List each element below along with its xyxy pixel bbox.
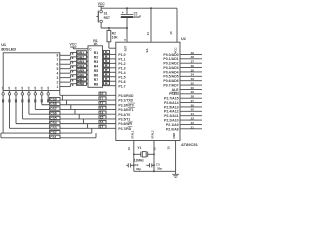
- pin 33 stub wire: [180, 77, 202, 81]
- pin names P0.0/AD0-P0.7/AD7 ALE PSEN P2.7/A15-P2.0/A8: [163, 53, 179, 131]
- svg-text:CS2: CS2: [50, 131, 57, 135]
- wire XTAL1 pin 19 down: [127, 141, 134, 172]
- svg-text:P3.1/TXD: P3.1/TXD: [118, 99, 133, 103]
- svg-text:R7: R7: [94, 78, 98, 82]
- wire R network to P1.4 pin 5: [103, 68, 116, 72]
- svg-text:P3.5/T1: P3.5/T1: [118, 118, 130, 122]
- svg-text:P1.0: P1.0: [118, 53, 125, 57]
- display bottom pin 4 with connection circle: [21, 91, 24, 119]
- junction ground rail: [153, 170, 155, 172]
- wire to resistor network: [87, 51, 89, 53]
- svg-text:P3.7/RD: P3.7/RD: [118, 127, 131, 131]
- pin 17 number box on P3.7 wire: [99, 125, 106, 129]
- pin 13 number box on P3.3 wire: [99, 106, 106, 110]
- svg-text:19: 19: [127, 147, 131, 150]
- wire CS net row to P3.3: [35, 108, 116, 110]
- pin 36 stub wire: [180, 64, 202, 68]
- net label DB6: [77, 73, 87, 77]
- pin 28 stub wire: [180, 95, 202, 99]
- wire CS net row 9: [1, 133, 96, 138]
- svg-text:ab: ab: [46, 86, 50, 89]
- svg-text:P3.4/T0: P3.4/T0: [118, 113, 130, 117]
- pin 10 number box on P3.0 wire: [99, 92, 106, 96]
- wire R network to P1.2 pin 3: [103, 59, 116, 63]
- net label CS8: [50, 102, 61, 106]
- svg-text:DB1: DB1: [77, 51, 84, 55]
- net label DB7: [77, 78, 87, 82]
- display bottom pin 7 with connection circle: [41, 91, 44, 105]
- pin 25 stub wire: [180, 108, 202, 112]
- wire display pin 2 to segment net: [60, 79, 77, 82]
- wire display pin 3 to segment net: [60, 75, 77, 78]
- svg-text:3: 3: [57, 76, 59, 80]
- svg-text:7: 7: [57, 58, 59, 62]
- wire R network to P1.6 pin 7: [103, 77, 116, 81]
- svg-text:2: 2: [57, 80, 59, 84]
- net label CS9: [50, 97, 61, 101]
- svg-text:U2: U2: [181, 37, 186, 41]
- resistor network R1 element labels R1-R8: [94, 51, 98, 86]
- staircase wire jog 6: [87, 124, 89, 129]
- staircase wire jog 3: [74, 109, 76, 114]
- wire R2 to RST pin area: [109, 42, 116, 48]
- svg-text:P1.1: P1.1: [118, 57, 125, 61]
- svg-text:R6: R6: [94, 73, 98, 77]
- staircase wire jog 0: [61, 95, 63, 100]
- svg-text:P1.5: P1.5: [118, 75, 125, 79]
- resistor network R1 body: [88, 46, 103, 88]
- svg-text:P1.7: P1.7: [118, 84, 125, 88]
- net label DB5: [77, 69, 87, 73]
- wire to resistor network: [87, 74, 89, 76]
- svg-text:10K: 10K: [112, 36, 119, 40]
- display bottom pin 6 with connection circle: [34, 91, 37, 110]
- svg-text:P3.3/INT1: P3.3/INT1: [118, 108, 133, 112]
- svg-text:ab: ab: [33, 86, 37, 89]
- pin 11 number box on P3.1 wire: [99, 97, 106, 101]
- staircase wire jog 7: [91, 128, 93, 133]
- wire display pin 1 to segment net: [60, 84, 77, 87]
- svg-text:P1.6: P1.6: [118, 80, 125, 84]
- svg-text:12MHz: 12MHz: [134, 159, 145, 163]
- display bottom pin 2 with connection circle: [8, 91, 11, 129]
- svg-text:30p: 30p: [157, 166, 162, 170]
- pin 34 stub wire: [180, 73, 202, 77]
- wire R network to P1.5 pin 6: [103, 73, 116, 77]
- wire ground rail: [134, 170, 176, 172]
- svg-text:DB8: DB8: [77, 82, 84, 86]
- net label CS4: [50, 121, 61, 125]
- junction C2 tap: [133, 164, 135, 166]
- svg-text:EA: EA: [145, 49, 149, 53]
- pin names P1.0-P1.7: [118, 53, 125, 88]
- junction crystal left: [133, 153, 135, 155]
- wire to resistor network: [87, 60, 89, 62]
- pin 15 number box on P3.5 wire: [99, 116, 106, 120]
- pin 14 number box on P3.4 wire: [99, 111, 106, 115]
- svg-text:ab: ab: [20, 86, 24, 89]
- svg-text:P1.4: P1.4: [118, 71, 125, 75]
- wire R network to P1.0 pin 1: [103, 50, 116, 54]
- net label CS3: [50, 126, 61, 130]
- svg-text:6: 6: [57, 63, 59, 67]
- wire CS net row to P3.5: [22, 118, 115, 120]
- svg-text:ab: ab: [1, 86, 5, 89]
- pin 32 stub wire: [180, 81, 202, 85]
- svg-text:DB6: DB6: [77, 73, 84, 77]
- staircase wire jog 1: [66, 100, 68, 105]
- pin 37 stub wire: [180, 60, 202, 64]
- net label DB8: [77, 82, 87, 86]
- svg-text:CS9: CS9: [50, 98, 57, 102]
- capacitor C3 30p: [146, 162, 162, 170]
- svg-text:AT89C51: AT89C51: [181, 142, 199, 147]
- junction at EA pin: [150, 7, 152, 9]
- net label CS7: [50, 107, 61, 111]
- pin 23 stub wire: [180, 117, 202, 121]
- svg-text:8DSLED: 8DSLED: [1, 47, 16, 51]
- svg-text:Y1: Y1: [137, 146, 141, 150]
- svg-text:21: 21: [191, 125, 195, 129]
- svg-text:40: 40: [169, 31, 173, 35]
- power symbol VCC top: [98, 2, 106, 8]
- svg-text:P3.2/INT0: P3.2/INT0: [118, 103, 133, 107]
- pin 29 stub wire: [180, 90, 202, 94]
- svg-text:8: 8: [57, 54, 59, 58]
- wire to resistor network: [87, 56, 89, 58]
- pin names P3.0-P3.7: [118, 94, 135, 131]
- wire CS net row to P3.4: [29, 113, 116, 115]
- display bottom pin 5 with connection circle: [28, 91, 31, 115]
- crystal Y1 12MHz: [134, 146, 154, 162]
- svg-text:ab: ab: [7, 86, 11, 89]
- wire CS net row to P3.2: [42, 104, 116, 106]
- pin 12 number box on P3.2 wire: [99, 102, 106, 106]
- staircase wire jog 8: [95, 133, 97, 138]
- net label CS5: [50, 116, 61, 120]
- pin 21 stub wire: [180, 125, 202, 129]
- wire R network to P1.3 pin 4: [103, 64, 116, 68]
- svg-text:R5: R5: [94, 69, 98, 73]
- pin 38 stub wire: [180, 55, 202, 59]
- svg-text:31: 31: [146, 32, 150, 36]
- svg-text:CS4: CS4: [50, 121, 57, 125]
- svg-text:GND: GND: [172, 133, 176, 139]
- svg-text:+: +: [122, 11, 124, 15]
- pin 22 stub wire: [180, 121, 202, 125]
- wire display pin 5 to segment net: [60, 66, 77, 69]
- svg-text:DB5: DB5: [77, 69, 84, 73]
- svg-text:10uF: 10uF: [134, 15, 141, 19]
- pin 26 stub wire: [180, 103, 202, 107]
- svg-text:DB7: DB7: [77, 78, 84, 82]
- net label DB2: [77, 55, 87, 59]
- junction at R2 top: [108, 27, 110, 29]
- capacitor C2 30p: [126, 163, 141, 171]
- wire display corner pin to P3 row: [60, 91, 116, 96]
- junction at C1 bottom: [126, 27, 128, 29]
- staircase wire jog 4: [78, 114, 80, 119]
- svg-text:P1.3: P1.3: [118, 66, 125, 70]
- svg-text:R2: R2: [94, 56, 98, 60]
- wire to resistor network: [87, 83, 89, 85]
- wire RST node down to MCU pin 9: [123, 28, 127, 42]
- junction at C1 top: [126, 7, 128, 9]
- svg-text:CS6: CS6: [50, 112, 57, 116]
- wire display pin 6 to segment net: [60, 61, 77, 64]
- LED display U1 body: [3, 53, 60, 91]
- ground symbol: [172, 171, 179, 177]
- net label DB1: [77, 51, 87, 55]
- resistor R2 10K: [107, 28, 118, 42]
- pin 24 stub wire: [180, 112, 202, 116]
- svg-text:XTAL1: XTAL1: [130, 130, 134, 139]
- net label CS6: [50, 112, 61, 116]
- wire to resistor network: [87, 78, 89, 80]
- svg-text:1: 1: [57, 85, 59, 89]
- wire VCC pin 40: [169, 8, 177, 42]
- svg-text:XTAL2: XTAL2: [151, 130, 155, 139]
- svg-text:RST: RST: [104, 16, 110, 20]
- net label CS1: [50, 135, 61, 139]
- svg-text:18: 18: [153, 147, 157, 150]
- svg-text:20: 20: [167, 146, 171, 149]
- pin 16 number box on P3.6 wire: [99, 120, 106, 124]
- pin 30 stub wire: [180, 86, 202, 90]
- staircase wire jog 5: [82, 119, 84, 124]
- wire GND pin 20 down: [167, 141, 176, 172]
- svg-text:R3: R3: [94, 60, 98, 64]
- svg-text:ab: ab: [27, 86, 31, 89]
- power symbol VCC at resistor network: [70, 43, 89, 49]
- wire XTAL2 pin 18 down: [153, 141, 157, 172]
- microcontroller U2 AT89C51 body: [116, 42, 180, 140]
- wire reset node rail: [101, 27, 127, 29]
- pin 35 stub wire: [180, 68, 202, 72]
- svg-text:RST: RST: [124, 45, 128, 51]
- capacitor C1 10uF electrolytic: [121, 8, 141, 28]
- svg-text:DB2: DB2: [77, 55, 84, 59]
- pin 27 stub wire: [180, 99, 202, 103]
- wire display pin 7 to segment net: [60, 57, 77, 60]
- svg-text:4: 4: [57, 71, 59, 75]
- svg-text:ab: ab: [39, 86, 43, 89]
- wire CS net row 8: [3, 132, 92, 134]
- display bottom pin 1 with connection circle: [2, 91, 5, 134]
- svg-text:P1.2: P1.2: [118, 62, 125, 66]
- svg-text:CS8: CS8: [50, 102, 57, 106]
- svg-text:CS7: CS7: [50, 107, 57, 111]
- svg-text:R4: R4: [94, 65, 98, 69]
- svg-text:VCC: VCC: [70, 43, 78, 47]
- wire VCC rail top: [101, 7, 177, 9]
- svg-text:P3.0/RXD: P3.0/RXD: [118, 94, 134, 98]
- display U1 right pin numbers 8-1: [57, 54, 59, 89]
- wire to resistor network: [87, 69, 89, 71]
- wire EA pin 31 to VCC: [146, 8, 151, 42]
- svg-text:DB3: DB3: [77, 60, 84, 64]
- junction crystal right: [153, 153, 155, 155]
- svg-text:5: 5: [57, 67, 59, 71]
- svg-text:30p: 30p: [136, 167, 141, 171]
- display U1 bottom pin name marks: [1, 86, 50, 89]
- net label DB4: [77, 64, 87, 68]
- svg-text:P3.6/WR: P3.6/WR: [118, 122, 132, 126]
- svg-text:ab: ab: [14, 86, 18, 89]
- display bottom pin 8 with connection circle: [47, 91, 50, 103]
- svg-text:CS1: CS1: [50, 135, 57, 139]
- pin 39 stub wire: [180, 51, 202, 55]
- wire CS net row to P3.6: [16, 123, 116, 125]
- net label CS2: [50, 130, 61, 134]
- switch S1 RST pushbutton: [96, 8, 110, 28]
- wire R network to P1.1 pin 2: [103, 55, 116, 59]
- svg-text:VCC: VCC: [98, 2, 106, 6]
- net label DB3: [77, 60, 87, 64]
- svg-text:CS5: CS5: [50, 116, 57, 120]
- svg-text:R1: R1: [94, 51, 98, 55]
- svg-text:CS3: CS3: [50, 126, 57, 130]
- wire CS net row to P3.1: [48, 99, 116, 101]
- svg-text:R8: R8: [94, 82, 98, 86]
- svg-text:DB4: DB4: [77, 64, 84, 68]
- svg-text:P2.0/A8: P2.0/A8: [166, 127, 179, 131]
- wire display pin 8 to segment net: [60, 52, 77, 55]
- junction C3 tap: [153, 164, 155, 166]
- wire CS net row to P3.7: [10, 127, 116, 129]
- display bottom pin 3 with connection circle: [15, 91, 18, 124]
- wire display pin 4 to segment net: [60, 70, 77, 73]
- wire R network to P1.7 pin 8: [103, 82, 116, 86]
- wire to resistor network: [87, 65, 89, 67]
- staircase wire jog 2: [70, 105, 72, 110]
